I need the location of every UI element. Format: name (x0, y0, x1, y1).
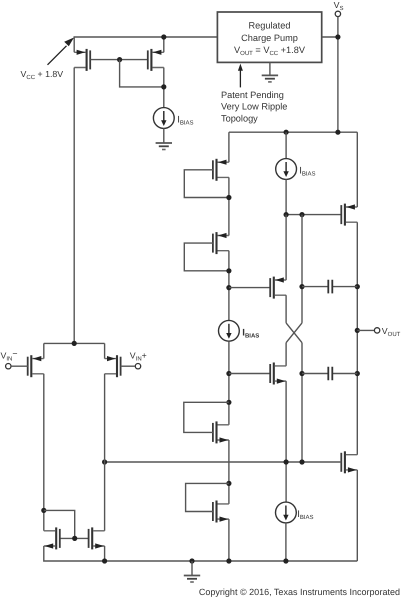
annotation arrow to VCC+1.8V rail (48, 46, 67, 65)
transistor M6 (center NMOS) (270, 363, 286, 385)
wire: M1 gate to M2 gate (91, 59, 149, 61)
wire: M4 drain down through gate taps to IBIAS3 (228, 251, 230, 321)
wire: cascode gate rail to M7 gate (286, 214, 341, 216)
junction gate rail / right branch (299, 212, 304, 217)
capacitor C1 wires (302, 286, 357, 288)
wire: right diff drain column down to M14 drain (104, 374, 106, 531)
wire: M9 gate loop (184, 402, 229, 432)
junction M10 drain/gate node (226, 481, 231, 486)
wire: M14 source to rail (104, 546, 106, 561)
wire: M13 source down and bottom rail (44, 546, 358, 561)
junction M2 drain/gate node (161, 84, 166, 89)
wire: box right to Vs line (322, 36, 338, 38)
wire: M10 gate loop (186, 483, 229, 511)
transistor M9 (diode NMOS) (213, 421, 229, 443)
terminal VIN- (6, 364, 11, 369)
transistor M5 (center PMOS) (270, 277, 286, 299)
wire: second stage gate wire from diff pair drain to M8 gate (105, 461, 342, 463)
wire: M9 source down crossing gate wire to M10 node (228, 440, 230, 504)
wire: VIN- lead (11, 365, 28, 367)
wire: rail down to M7 source (356, 132, 358, 207)
svg-text:VS: VS (334, 0, 344, 12)
svg-text:Regulated: Regulated (249, 20, 291, 30)
wire: M8 source down to bottom rail corner (356, 470, 358, 561)
svg-text:Patent Pending: Patent Pending (221, 90, 284, 100)
junction tail (72, 341, 77, 346)
wire: right branch down through cap1 node to crossover (301, 215, 303, 323)
svg-text:VIN−: VIN− (1, 348, 18, 362)
junction cap2 right (355, 371, 360, 376)
junction VOUT node (355, 328, 360, 333)
junction cap1 left (299, 284, 304, 289)
wire: IBIAS1 to ground (163, 128, 165, 143)
capacitor C2 (328, 367, 332, 381)
junction gate net (72, 536, 77, 541)
wire: crossover to M6 drain (285, 343, 287, 366)
svg-text:Copyright © 2016, Texas Instru: Copyright © 2016, Texas Instruments Inco… (199, 587, 400, 597)
current source IBIAS1 (153, 108, 174, 129)
junction M2 source / rail (161, 34, 166, 39)
junction IBIAS4/rail (283, 558, 288, 563)
wire: tap to M6 gate (229, 373, 271, 375)
junction gate wire / M6 source column (284, 459, 289, 464)
junction M6 gate tap (226, 371, 231, 376)
svg-text:Topology: Topology (221, 113, 258, 123)
transistor M8 (right output NMOS) (341, 451, 357, 473)
transistor M14 (bottom-left NMOS) (89, 527, 105, 549)
wire: rail down to M3 source (228, 132, 230, 162)
charge pump box (217, 12, 321, 62)
wire: left diff drain column down to M13 (43, 374, 45, 531)
junction IBIAS2/gate rail (284, 212, 289, 217)
wire: M2 source up to rail (163, 37, 165, 52)
svg-text:IBIAS: IBIAS (297, 509, 313, 521)
junction on gate wire (117, 57, 122, 62)
current source IBIAS4 (276, 502, 297, 523)
svg-text:VOUT: VOUT (382, 326, 401, 338)
wire: Vs down to rail junction and core rail (337, 17, 339, 133)
junction M13 diode node (41, 508, 46, 513)
junction Vs/box wire (335, 34, 340, 39)
wire: M3 drain to node (228, 177, 230, 235)
junction M14 source/rail (102, 558, 107, 563)
transistor M2 (top-left PMOS, diode-connected) (148, 49, 164, 71)
wire: M13 gate to M14 gate (60, 537, 88, 539)
current source IBIAS3 (center) (219, 320, 240, 341)
patent pointer arrow (239, 70, 241, 88)
junction M9 drain/gate node (226, 400, 231, 405)
svg-text:IBIAS: IBIAS (177, 115, 193, 127)
wire: crossover down through cap2 node to gate wire (301, 343, 303, 462)
wire: left input source up (43, 343, 45, 358)
junction M4 drain/gate (226, 268, 231, 273)
svg-text:VCC + 1.8V: VCC + 1.8V (21, 69, 64, 81)
wire: M5 drain down to crossover (285, 295, 287, 323)
svg-text:IBIAS: IBIAS (299, 166, 315, 178)
wire: diff pair tail rail (44, 342, 105, 344)
wire: M10 source to bottom rail (228, 519, 230, 561)
svg-text:VIN+: VIN+ (130, 351, 147, 363)
crossover X wires (286, 323, 302, 343)
junction core rail / Vs line (335, 130, 340, 135)
junction cap2 left (299, 371, 304, 376)
transistor M3 (diode PMOS) (213, 159, 229, 181)
junction M5 gate tap (226, 285, 231, 290)
wire: IBIAS2 down to cascode gate node (285, 179, 287, 214)
ground under IBIAS1 (156, 143, 172, 150)
wire: ground stem (191, 561, 193, 576)
junction ground tap (189, 558, 194, 563)
wire: VOUT stub (357, 329, 374, 331)
transistor M13 (bottom-left NMOS, mirrored) (44, 527, 60, 549)
transistor M7 (right cascode PMOS) (341, 204, 357, 226)
terminal Vs (335, 11, 340, 16)
wire: IBIAS3 down through taps to M9 (228, 341, 230, 425)
svg-text:Charge Pump: Charge Pump (241, 33, 298, 43)
junction gate wire / crossover column (299, 459, 304, 464)
wire: M13 gate net loop (44, 510, 75, 538)
transistor M11 (input PMOS, VIN-) (28, 355, 44, 377)
junction M3 drain/gate (226, 195, 231, 200)
junction M10 source/rail (226, 558, 231, 563)
svg-text:Very Low Ripple: Very Low Ripple (221, 102, 287, 112)
transistor M4 (diode PMOS) (213, 232, 229, 254)
ground bottom (184, 576, 200, 583)
transistor M12 (input PMOS, VIN+) (105, 355, 121, 377)
wire: node down to M5 source (285, 215, 287, 280)
wire: M2 drain down to IBIAS1 (163, 68, 165, 108)
wire: top supply rail from M1 source corner to charge pump box (74, 37, 217, 52)
terminal VOUT (374, 328, 379, 333)
wire: gate junction down and right to M2 drain node (120, 60, 164, 87)
capacitor C1 (328, 280, 332, 294)
capacitor C2 wires (302, 373, 357, 375)
wire: tap to M5 gate (229, 287, 271, 289)
wire: right input source up (104, 343, 106, 358)
wire: VIN+ lead (121, 365, 136, 367)
ground under charge pump box (269, 62, 271, 75)
svg-text:IBIAS: IBIAS (242, 327, 259, 339)
transistor M10 (diode NMOS) (213, 501, 229, 523)
junction core rail / IBIAS2 (284, 130, 289, 135)
wire: tail vertical from M1 drain to diff pair (73, 68, 75, 344)
wire: M3 gate loop (184, 170, 229, 198)
wire: junction down to IBIAS4 (285, 462, 287, 502)
wire: M7 drain down right column to M8 drain (356, 222, 358, 455)
terminal VIN+ (135, 364, 140, 369)
wire: IBIAS4 to bottom rail (285, 523, 287, 561)
wire: core top rail (229, 131, 357, 133)
current source IBIAS2 (276, 159, 297, 180)
wire: M4 gate loop (184, 243, 229, 271)
junction gate wire / right diff drain (102, 459, 107, 464)
transistor M1 (top-left PMOS, mirrored) (74, 49, 90, 71)
wire: rail down to IBIAS2 (285, 132, 287, 158)
junction cap1 right (355, 284, 360, 289)
wire: M6 source down to gate wire junction (285, 381, 287, 462)
